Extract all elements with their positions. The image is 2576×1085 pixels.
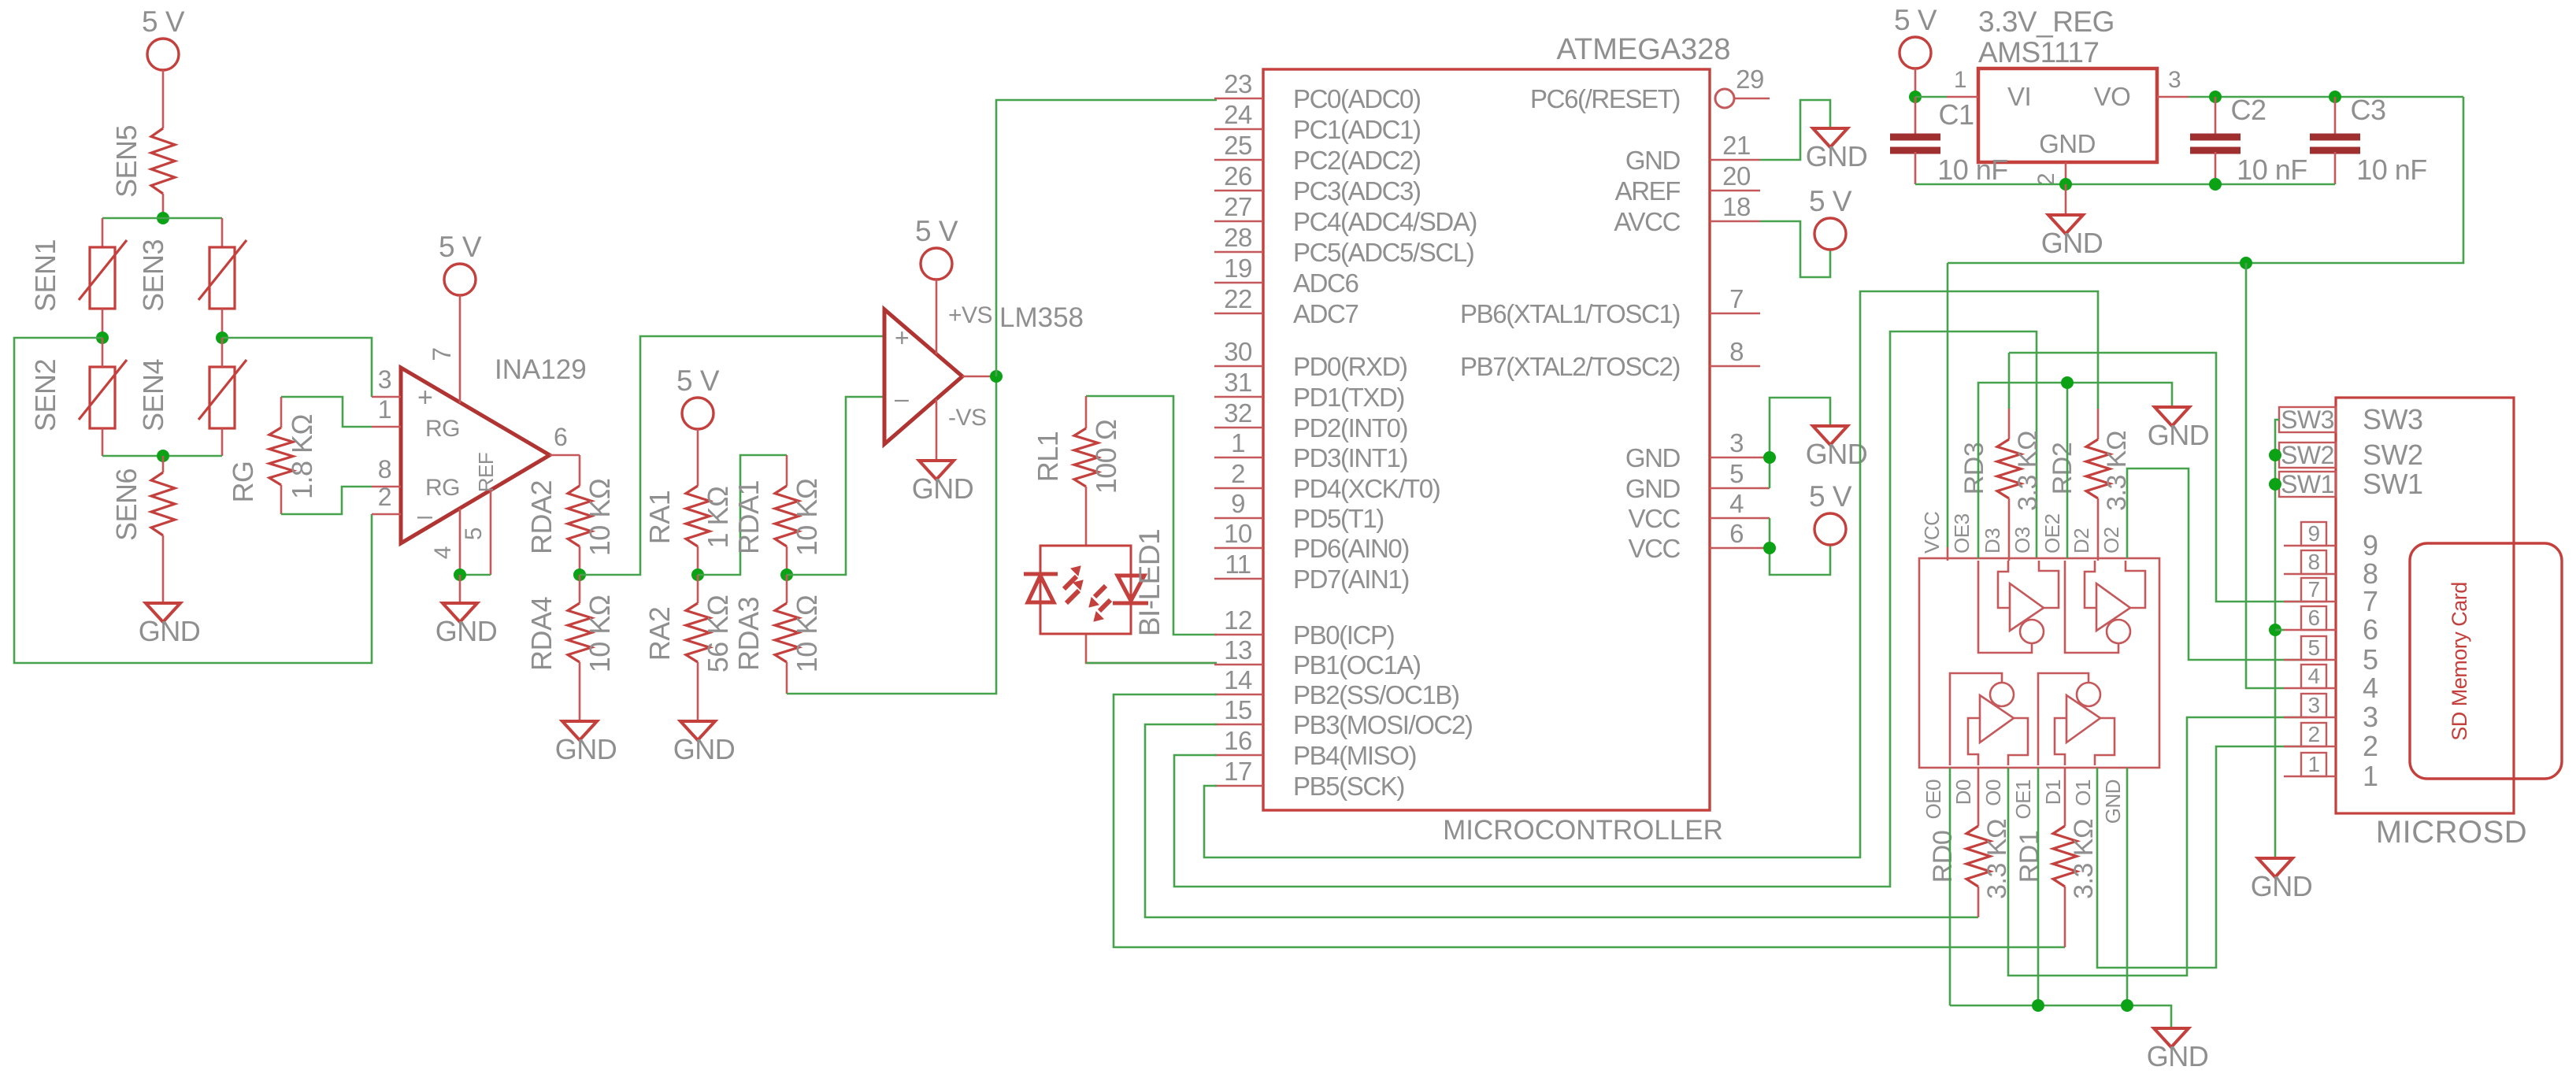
svg-text:GND: GND — [912, 472, 974, 505]
svg-text:7: 7 — [2307, 577, 2319, 602]
svg-text:9: 9 — [2307, 521, 2319, 546]
resistor RG 1.8K — [280, 397, 283, 428]
svg-text:PD4(XCK/T0): PD4(XCK/T0) — [1293, 474, 1440, 503]
wire — [221, 428, 224, 456]
svg-text:GND: GND — [2039, 129, 2096, 158]
svg-text:SEN2: SEN2 — [29, 359, 61, 431]
wire RA node to RDA1 — [698, 455, 787, 575]
node — [2121, 999, 2133, 1012]
buffer gate B0 — [1968, 718, 1980, 765]
svg-text:INA129: INA129 — [495, 354, 587, 385]
svg-text:2: 2 — [378, 483, 391, 511]
pin 7 PB6(XTAL1/TOSC1) — [1710, 313, 1760, 315]
svg-text:21: 21 — [1722, 131, 1751, 160]
pin 24 PC1(ADC1) — [1214, 128, 1263, 131]
ground GND (microSD) — [2258, 858, 2292, 877]
svg-text:5 V: 5 V — [439, 231, 482, 263]
resistor RL1 100 — [1085, 396, 1088, 428]
svg-text:22: 22 — [1224, 284, 1252, 313]
svg-text:RD3: RD3 — [1959, 443, 1989, 495]
svg-text:100 Ω: 100 Ω — [1090, 420, 1122, 494]
svg-text:2: 2 — [2307, 722, 2319, 746]
resistor RD3 3.3K — [2008, 353, 2011, 409]
wire 3.3V rail — [2189, 96, 2463, 98]
pin 4 — [459, 509, 461, 575]
pin 32 PD2(INT0) — [1214, 427, 1263, 429]
wire feedback — [786, 662, 788, 694]
resistor RD1 3.3K — [2064, 768, 2066, 826]
svg-text:3: 3 — [2307, 693, 2319, 717]
svg-text:SW2: SW2 — [2281, 441, 2334, 469]
buffer gate B2 — [2085, 561, 2096, 608]
svg-text:D0: D0 — [1951, 779, 1975, 805]
pin 6 output — [550, 454, 580, 457]
svg-text:GND: GND — [1806, 438, 1868, 470]
svg-text:10 KΩ: 10 KΩ — [791, 595, 823, 672]
svg-text:D1: D1 — [2041, 779, 2065, 805]
wire to INA129 pin2 (left loop) — [14, 338, 372, 663]
svg-text:MICROCONTROLLER: MICROCONTROLLER — [1443, 815, 1723, 846]
wire VCC 3.3V — [1947, 263, 1949, 547]
svg-text:5: 5 — [2307, 635, 2319, 660]
pin 3 GND — [1710, 457, 1760, 459]
svg-text:+: + — [895, 324, 909, 352]
wire — [697, 429, 699, 486]
wire — [102, 428, 104, 456]
node reg gnd — [2059, 178, 2072, 191]
pin 16 PB4(MISO) — [1214, 754, 1263, 757]
svg-text:PB6(XTAL1/TOSC1): PB6(XTAL1/TOSC1) — [1460, 299, 1680, 328]
pin +VS — [936, 280, 938, 354]
svg-text:5 V: 5 V — [1894, 4, 1937, 36]
svg-text:SEN3: SEN3 — [137, 239, 169, 312]
pin 5 GND — [1710, 487, 1760, 490]
pin 17 PB5(SCK) — [1214, 785, 1263, 787]
svg-text:D2: D2 — [2070, 528, 2093, 554]
pin 13 PB1(OC1A) — [1214, 664, 1263, 666]
wire — [221, 218, 224, 247]
svg-text:4: 4 — [2307, 664, 2319, 688]
svg-text:1: 1 — [2363, 760, 2378, 792]
wire — [786, 546, 788, 575]
buffer gate B3 — [1998, 561, 2010, 608]
microcontroller U3 ATMEGA328 — [1263, 69, 1710, 810]
wire LED bottom to pin13 — [1086, 635, 1217, 663]
pin 14 PB2(SS/OC1B) — [1214, 694, 1263, 696]
node reg input — [1909, 91, 1922, 103]
buffer gate B1 — [2055, 718, 2066, 765]
pin 2 GND — [2065, 162, 2067, 184]
svg-text:PD6(AIN0): PD6(AIN0) — [1293, 534, 1409, 563]
svg-text:2: 2 — [1231, 459, 1245, 488]
wire O2 to SD pin5 — [2127, 468, 2307, 660]
svg-text:SEN6: SEN6 — [110, 468, 143, 541]
resistor RDA3 10K — [786, 575, 788, 603]
wire to VI — [1915, 96, 1947, 98]
svg-text:PC1(ADC1): PC1(ADC1) — [1293, 115, 1421, 144]
svg-text:GND: GND — [2148, 419, 2210, 451]
svg-text:+VS: +VS — [948, 302, 992, 328]
wire OE1 to gnd bus — [2037, 768, 2040, 1005]
pin 8 — [2284, 573, 2336, 576]
svg-text:PD1(TXD): PD1(TXD) — [1293, 383, 1404, 412]
svg-text:3.3V_REG: 3.3V_REG — [1978, 6, 2115, 38]
node — [454, 568, 466, 581]
pin 10 PD6(AIN0) — [1214, 547, 1263, 550]
svg-text:O1: O1 — [2071, 779, 2095, 806]
buffer IC U5 quad buffer box — [1919, 558, 2159, 768]
svg-text:5: 5 — [2363, 643, 2378, 676]
ground GND (regulator) — [2048, 215, 2083, 234]
resistor RDA1 10K — [786, 455, 788, 486]
svg-text:+: + — [417, 383, 432, 413]
capacitor C3 10nF — [2334, 97, 2337, 135]
wire — [1914, 69, 1917, 97]
wire gnd bus — [1950, 1005, 2171, 1028]
svg-text:26: 26 — [1224, 161, 1252, 191]
wire — [459, 575, 461, 603]
svg-text:1: 1 — [1954, 67, 1966, 93]
pin 3 — [2284, 717, 2336, 719]
svg-text:1: 1 — [2307, 752, 2319, 776]
svg-text:VCC: VCC — [1629, 534, 1681, 563]
wire — [162, 70, 165, 128]
svg-text:3.3 KΩ: 3.3 KΩ — [2013, 431, 2043, 511]
pin 22 ADC7 — [1214, 313, 1263, 315]
svg-text:24: 24 — [1224, 100, 1252, 129]
wire to INA129 pin3 — [222, 338, 372, 397]
power 5V supply (regulator input) — [1900, 37, 1931, 69]
pin 19 ADC6 — [1214, 282, 1263, 284]
svg-text:PC4(ADC4/SDA): PC4(ADC4/SDA) — [1293, 207, 1477, 236]
svg-text:RDA4: RDA4 — [525, 597, 558, 671]
wire — [221, 309, 224, 338]
svg-text:2: 2 — [2363, 730, 2378, 762]
power 5V (AVCC) — [1814, 218, 1846, 250]
node bridge-right — [216, 331, 228, 344]
wire — [102, 309, 104, 338]
node RDA divider — [573, 568, 586, 581]
ground GND (LM358) — [919, 461, 954, 480]
svg-text:10 nF: 10 nF — [2237, 154, 2307, 186]
svg-text:1.8 KΩ: 1.8 KΩ — [286, 414, 318, 499]
svg-text:31: 31 — [1224, 368, 1252, 397]
pin 8 PB7(XTAL2/TOSC2) — [1710, 365, 1760, 368]
pin 5 — [2284, 659, 2336, 661]
svg-text:30: 30 — [1224, 337, 1252, 366]
resistor SEN5 — [151, 128, 175, 194]
svg-text:PD2(INT0): PD2(INT0) — [1293, 413, 1407, 443]
node RA divider — [691, 568, 704, 581]
wire — [697, 546, 699, 575]
op-amp U1 INA129 — [401, 368, 550, 543]
svg-text:PD7(AIN1): PD7(AIN1) — [1293, 565, 1409, 594]
wire — [697, 662, 699, 721]
wire O0 to SD pin3 — [2008, 717, 2307, 976]
svg-text:PB1(OC1A): PB1(OC1A) — [1293, 650, 1421, 680]
resistor RD0 3.3K — [1977, 768, 1980, 826]
resistor RD2 3.3K — [2086, 439, 2110, 498]
svg-text:5 V: 5 V — [915, 215, 958, 247]
svg-text:25: 25 — [1224, 131, 1252, 160]
wire RL1 top — [1086, 396, 1217, 635]
svg-text:ADC7: ADC7 — [1293, 299, 1358, 328]
svg-text:SW1: SW1 — [2281, 470, 2334, 498]
svg-text:28: 28 — [1224, 223, 1252, 252]
svg-text:20: 20 — [1722, 161, 1751, 191]
output stub — [962, 376, 996, 378]
pin 3 VO — [2157, 96, 2189, 98]
svg-text:GND: GND — [2251, 870, 2313, 902]
svg-text:10 KΩ: 10 KΩ — [584, 595, 616, 672]
sd card outline — [2410, 543, 2562, 779]
wire — [579, 546, 581, 575]
svg-text:4: 4 — [1729, 489, 1744, 518]
pin SW3 — [2279, 407, 2336, 432]
svg-text:3: 3 — [2363, 701, 2378, 733]
svg-text:GND: GND — [1806, 140, 1868, 172]
node LM358 out — [990, 370, 1003, 383]
resistor SEN6 — [162, 456, 165, 472]
svg-text:3: 3 — [2168, 67, 2181, 93]
wire pin15 MOSI to RD0/D0 — [1145, 724, 1978, 917]
pin 6 VCC — [1710, 547, 1760, 550]
svg-text:PC5(ADC5/SCL): PC5(ADC5/SCL) — [1293, 238, 1473, 267]
wire pin18 to 5V — [1760, 221, 1830, 277]
ground GND (buffer) — [2154, 1028, 2189, 1047]
wire divider to LM358 + — [580, 336, 884, 575]
svg-text:7: 7 — [2363, 585, 2378, 617]
svg-text:PB5(SCK): PB5(SCK) — [1293, 772, 1404, 801]
pin SW1 — [2279, 472, 2336, 497]
sensor SEN3 — [209, 247, 235, 309]
svg-text:SEN5: SEN5 — [110, 125, 143, 198]
svg-text:PB3(MOSI/OC2): PB3(MOSI/OC2) — [1293, 710, 1473, 739]
svg-text:O3: O3 — [2011, 527, 2034, 554]
node SD pin6 gnd — [2269, 624, 2281, 636]
svg-text:3.3 KΩ: 3.3 KΩ — [2069, 819, 2099, 899]
svg-text:RG: RG — [227, 461, 259, 503]
pin 7 — [2284, 601, 2336, 603]
pin 27 PC4(ADC4/SDA) — [1214, 220, 1263, 223]
svg-text:VCC: VCC — [1920, 512, 1944, 554]
svg-text:SD Memory Card: SD Memory Card — [2448, 582, 2471, 741]
svg-text:AVCC: AVCC — [1614, 207, 1680, 236]
svg-text:RG: RG — [425, 475, 460, 501]
svg-text:32: 32 — [1224, 398, 1252, 428]
svg-text:O2: O2 — [2100, 527, 2123, 554]
svg-text:6: 6 — [2363, 613, 2378, 646]
pin 2 — [372, 513, 401, 516]
svg-text:PB4(MISO): PB4(MISO) — [1293, 741, 1416, 770]
voltage regulator U4 AMS1117 — [1978, 69, 2157, 162]
power 5V supply (LM358) — [921, 248, 952, 280]
pin -VS — [936, 399, 938, 461]
svg-text:GND: GND — [2101, 779, 2125, 824]
wire pin21 to GND — [1760, 100, 1830, 160]
svg-text:3: 3 — [378, 365, 391, 394]
svg-text:10 KΩ: 10 KΩ — [584, 479, 616, 556]
ground GND (INA129 ref) — [443, 603, 477, 622]
svg-text:GND: GND — [2147, 1040, 2209, 1072]
svg-text:–: – — [895, 384, 909, 413]
svg-text:SEN1: SEN1 — [29, 239, 61, 312]
wire — [102, 338, 104, 367]
pin 30 PD0(RXD) — [1214, 365, 1263, 368]
pin 25 PC2(ADC2) — [1214, 159, 1263, 161]
connector J1 MICROSD — [2336, 398, 2514, 813]
power 5V supply (RA1) — [682, 398, 713, 429]
svg-text:O0: O0 — [1981, 779, 2005, 806]
node c2 bottom — [2209, 178, 2222, 191]
svg-text:9: 9 — [1231, 489, 1245, 518]
svg-text:29: 29 — [1736, 65, 1764, 94]
svg-text:6: 6 — [1729, 519, 1744, 548]
svg-text:56 KΩ: 56 KΩ — [702, 595, 734, 672]
svg-text:5: 5 — [1729, 459, 1744, 488]
svg-text:15: 15 — [1224, 695, 1252, 724]
svg-text:GND: GND — [1625, 146, 1681, 175]
capacitor C1 10nF — [1914, 97, 1917, 135]
svg-text:5 V: 5 V — [1809, 185, 1852, 217]
pin 1 — [372, 426, 401, 428]
power 5V (VCC) — [1814, 513, 1846, 545]
wire SW pins to GND — [2275, 420, 2279, 858]
ground GND (OE3/OE2) — [2155, 407, 2189, 426]
wire — [221, 338, 224, 367]
node pin3 — [1763, 451, 1776, 464]
node pin6 — [1763, 542, 1776, 554]
pin 7 with 5V supply — [444, 264, 476, 295]
svg-text:14: 14 — [1224, 665, 1252, 694]
node bridge-bottom — [157, 450, 169, 462]
svg-text:PD0(RXD): PD0(RXD) — [1293, 352, 1407, 381]
svg-text:AREF: AREF — [1615, 176, 1681, 206]
svg-text:RD2: RD2 — [2048, 443, 2077, 495]
resistor RA2 56K — [697, 575, 699, 603]
svg-text:8: 8 — [378, 455, 391, 483]
svg-text:RA1: RA1 — [643, 491, 676, 545]
svg-text:AMS1117: AMS1117 — [1978, 36, 2100, 69]
power 5V supply P1 — [147, 39, 179, 70]
svg-text:ATMEGA328: ATMEGA328 — [1556, 33, 1730, 66]
ground GND (RDA4) — [562, 721, 597, 740]
svg-text:MICROSD: MICROSD — [2376, 815, 2527, 850]
svg-text:PD3(INT1): PD3(INT1) — [1293, 443, 1407, 472]
node C2 top — [2209, 91, 2222, 103]
node SW1 — [2269, 478, 2281, 491]
pin 26 PC3(ADC3) — [1214, 190, 1263, 192]
wire pin16 MISO to O3 net — [1174, 331, 2037, 887]
svg-text:10 KΩ: 10 KΩ — [791, 479, 823, 556]
svg-text:4: 4 — [430, 546, 456, 559]
pin 6 — [2284, 629, 2336, 631]
pin 1 — [2284, 776, 2336, 778]
wire to LM358 - — [787, 397, 884, 575]
svg-text:RDA3: RDA3 — [732, 597, 765, 671]
svg-text:SW3: SW3 — [2363, 403, 2423, 435]
wire OE3/OE2 to GND rail — [1978, 383, 2172, 558]
svg-text:C1: C1 — [1938, 98, 1974, 131]
wire 3.3V down — [1948, 97, 2463, 263]
svg-text:D3: D3 — [1981, 528, 2004, 554]
wire OE0 to gnd bus — [1949, 768, 1951, 1005]
svg-text:RD0: RD0 — [1928, 831, 1958, 883]
svg-text:VI: VI — [2007, 82, 2031, 111]
svg-text:1: 1 — [378, 395, 391, 424]
node bridge-top — [157, 212, 169, 224]
pin 9 — [2284, 545, 2336, 547]
svg-text:SW1: SW1 — [2363, 468, 2423, 500]
svg-text:RDA1: RDA1 — [732, 480, 765, 554]
sensor SEN4 — [209, 367, 235, 428]
node SW2 — [2269, 449, 2281, 461]
svg-text:-VS: -VS — [948, 405, 987, 431]
wire output to ADC0 pin23 — [996, 100, 1217, 376]
pin 3 — [372, 396, 401, 398]
svg-text:C2: C2 — [2230, 94, 2266, 126]
node — [2032, 999, 2044, 1012]
wire pin17 SCK to D2 — [1204, 291, 2098, 857]
svg-text:SW2: SW2 — [2363, 439, 2423, 471]
svg-text:REF: REF — [474, 453, 498, 493]
svg-text:8: 8 — [1729, 337, 1744, 366]
pin 23 PC0(ADC0) — [1214, 98, 1263, 100]
svg-text:GND: GND — [436, 615, 498, 647]
svg-text:PC3(ADC3): PC3(ADC3) — [1293, 176, 1421, 206]
svg-text:PB2(SS/OC1B): PB2(SS/OC1B) — [1293, 680, 1459, 709]
svg-text:C3: C3 — [2350, 94, 2385, 126]
wire — [579, 455, 581, 486]
sensor SEN2 — [90, 367, 115, 428]
wire — [162, 194, 165, 218]
svg-text:5 V: 5 V — [142, 6, 185, 38]
svg-text:GND: GND — [2041, 227, 2103, 259]
ground GND (RA2) — [680, 721, 715, 740]
svg-text:VCC: VCC — [1629, 504, 1681, 533]
svg-text:23: 23 — [1224, 69, 1252, 98]
svg-text:PD5(T1): PD5(T1) — [1293, 504, 1384, 533]
wire RD3 rail to SD pin7 — [2009, 353, 2307, 602]
pin 15 PB3(MOSI/OC2) — [1214, 724, 1263, 726]
svg-text:RL1: RL1 — [1032, 431, 1064, 483]
pin 1 VI — [1947, 96, 1978, 98]
svg-text:13: 13 — [1224, 635, 1252, 665]
svg-text:8: 8 — [2307, 550, 2319, 574]
node RDA1/RDA3 — [780, 568, 793, 581]
wire D3 — [2008, 498, 2011, 561]
wire D2 — [2097, 498, 2100, 561]
svg-text:ADC6: ADC6 — [1293, 268, 1358, 298]
svg-text:RG: RG — [425, 416, 460, 442]
svg-text:OE3: OE3 — [1950, 513, 1974, 554]
pin 28 PC5(ADC5/SCL) — [1214, 251, 1263, 254]
svg-text:3: 3 — [1729, 428, 1744, 457]
svg-text:1 KΩ: 1 KΩ — [702, 487, 734, 549]
svg-text:18: 18 — [1722, 192, 1751, 221]
pin 5 REF — [490, 490, 492, 575]
pin 1 PD3(INT1) — [1214, 457, 1263, 459]
wire bottom rail — [102, 455, 222, 457]
wire GND pin to bus — [2126, 768, 2129, 1005]
pin 4 VCC — [1710, 517, 1760, 520]
svg-text:11: 11 — [1225, 550, 1251, 579]
pin 9 PD5(T1) — [1214, 517, 1263, 520]
svg-text:GND: GND — [555, 733, 617, 765]
wire RG top — [281, 397, 372, 427]
svg-text:PC0(ADC0): PC0(ADC0) — [1293, 84, 1421, 113]
wire — [102, 218, 104, 247]
